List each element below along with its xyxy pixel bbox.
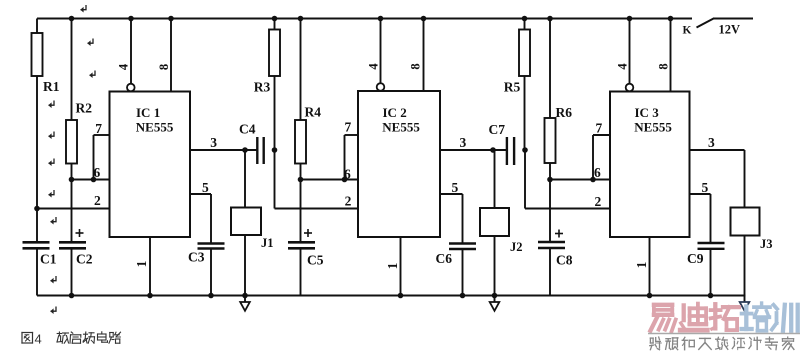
capacitor C3: [198, 244, 225, 299]
label pin1 IC3: [634, 261, 649, 268]
wire bottom ground rail: [37, 294, 746, 296]
label R4: [305, 105, 322, 120]
label C3: [188, 250, 205, 265]
label K: [683, 25, 692, 37]
label pin4 IC3: [616, 63, 630, 70]
capacitor C9: [698, 243, 725, 298]
label pin7 IC2: [345, 120, 352, 135]
label NE555 IC2: [382, 120, 420, 135]
svg-text:J1: J1: [261, 236, 274, 250]
svg-text:4: 4: [35, 332, 42, 347]
svg-text:IC 3: IC 3: [635, 105, 660, 120]
label R3: [254, 79, 271, 94]
paragraph return mark 3: [89, 71, 95, 79]
paragraph return mark 4: [48, 101, 54, 109]
svg-text:1: 1: [634, 261, 649, 268]
label pin4 IC1: [117, 63, 131, 70]
label pin3 IC3: [708, 135, 715, 150]
pin4 circle IC3: [626, 84, 634, 92]
label pin1 IC1: [134, 260, 149, 267]
wire IC2 pin7 step: [342, 135, 358, 182]
label pin2 IC1: [94, 193, 101, 208]
label J1: [261, 236, 274, 250]
svg-text:2: 2: [345, 194, 352, 209]
label pin7 IC3: [596, 121, 603, 136]
wire IC2 pin1 gnd: [398, 237, 404, 298]
svg-text:4: 4: [367, 63, 381, 70]
label pin2 IC2: [345, 194, 352, 209]
resistor R1: [32, 19, 43, 209]
wire J2 top: [494, 150, 496, 208]
svg-text:C5: C5: [307, 253, 324, 268]
label IC 2: [383, 105, 407, 120]
label C9: [687, 251, 704, 266]
wire IC1 pin1 gnd: [147, 237, 153, 298]
wire IC3 pin5: [690, 194, 711, 244]
svg-text:C8: C8: [556, 253, 573, 268]
svg-text:C7: C7: [489, 122, 506, 137]
svg-text:C3: C3: [188, 250, 205, 265]
wire IC3 pin4 reset: [627, 16, 633, 84]
capacitor C7 coupling: [507, 137, 514, 165]
wire top power rail: [37, 17, 692, 19]
svg-text:C6: C6: [436, 251, 453, 266]
watermark subtitle text: [650, 337, 794, 350]
svg-text:5: 5: [202, 180, 209, 195]
svg-text:R2: R2: [76, 101, 93, 116]
node R5 C7 junction: [522, 147, 528, 153]
label 12V: [719, 23, 741, 37]
paragraph return mark 5: [48, 132, 54, 140]
label pin7 IC1: [95, 121, 102, 136]
svg-text:C2: C2: [76, 252, 93, 267]
wire IC3 pin3 output: [690, 150, 745, 208]
label pin6 IC3: [594, 165, 601, 180]
label pin8 IC3: [657, 63, 671, 69]
label C2: [76, 252, 93, 267]
wire R1 bottom to C1: [36, 209, 38, 243]
label pin2 IC3: [595, 194, 602, 209]
svg-text:1: 1: [134, 260, 149, 267]
label C7: [489, 122, 506, 137]
label pin8 IC1: [157, 64, 171, 70]
svg-text:3: 3: [210, 135, 217, 150]
label pin5 IC3: [702, 180, 709, 195]
wire IC2 pin4 reset: [378, 16, 384, 84]
paragraph return mark 2: [87, 39, 93, 47]
label J2: [510, 240, 523, 254]
svg-text:8: 8: [157, 64, 171, 70]
op- IC1 box NE555: [110, 92, 191, 238]
paragraph return mark 8: [50, 217, 56, 225]
wire J2 bottom: [492, 236, 498, 298]
svg-text:R3: R3: [254, 79, 271, 94]
svg-text:C9: C9: [687, 251, 704, 266]
resistor R2: [66, 16, 77, 180]
wire IC1 pin6: [72, 179, 110, 181]
svg-text:IC 2: IC 2: [383, 105, 407, 120]
watermark logo text: [650, 303, 797, 331]
wire IC1 pin5: [190, 194, 211, 243]
svg-text:NE555: NE555: [382, 120, 420, 135]
wire R5 junction to IC3 pin2: [525, 150, 610, 209]
svg-text:R1: R1: [43, 79, 60, 94]
label C1: [40, 252, 57, 267]
svg-text:7: 7: [596, 121, 603, 136]
label C8 plus polarity: [555, 230, 563, 238]
wire IC2 pin3 output: [440, 149, 506, 151]
paragraph return mark 7: [48, 190, 54, 198]
wire IC3 pin7 step: [590, 135, 610, 182]
label C4: [239, 122, 256, 137]
svg-text:1: 1: [385, 262, 400, 269]
svg-text:4: 4: [117, 63, 131, 70]
svg-text:8: 8: [657, 63, 671, 69]
label pin6 IC2: [344, 167, 351, 182]
label C6: [436, 251, 453, 266]
wire J1 bottom: [242, 235, 248, 298]
label R6: [556, 105, 573, 120]
op- IC2 box NE555: [358, 91, 440, 237]
relay J2 box: [480, 208, 509, 236]
pin4 circle IC2: [377, 83, 385, 91]
label R5: [504, 79, 521, 94]
ground arrow stage1: [240, 296, 250, 311]
svg-text:8: 8: [409, 63, 423, 69]
svg-text:7: 7: [345, 120, 352, 135]
label R2: [76, 101, 93, 116]
wire IC2 pin8 vcc: [421, 16, 427, 91]
wire J3 bottom: [744, 236, 746, 296]
svg-text:NE555: NE555: [634, 120, 672, 135]
relay J1 box: [231, 208, 261, 236]
capacitor C5 electrolytic: [288, 180, 315, 296]
svg-text:5: 5: [452, 180, 459, 195]
label pin8 IC2: [409, 63, 423, 69]
label NE555 IC3: [634, 120, 672, 135]
wire 12V supply segment: [713, 17, 753, 19]
svg-text:K: K: [683, 25, 692, 37]
label IC 3: [635, 105, 660, 120]
label pin1 IC2: [385, 262, 400, 269]
svg-text:J2: J2: [510, 240, 523, 254]
label C5: [307, 253, 324, 268]
wire J1 top: [244, 150, 246, 208]
node R3 C4 junction: [272, 147, 278, 153]
wire IC3 pin6: [550, 179, 610, 181]
relay J3 box: [731, 208, 760, 236]
svg-text:C1: C1: [40, 252, 57, 267]
wire IC1 pin2: [37, 208, 110, 210]
watermark underline: [648, 333, 800, 335]
switch K blade: [697, 18, 715, 27]
label C2 plus polarity: [76, 229, 84, 237]
node J1 output junction: [242, 147, 248, 153]
label NE555 IC1: [136, 120, 174, 135]
ground arrow stage3: [740, 296, 750, 311]
label pin5 IC1: [202, 180, 209, 195]
wire IC3 pin8 vcc: [668, 16, 674, 92]
capacitor C2 electrolytic: [59, 180, 86, 299]
capacitor C6: [449, 244, 476, 299]
svg-text:R5: R5: [504, 79, 521, 94]
wire IC1 pin8 vcc: [168, 16, 174, 92]
wire IC1 pin4 reset: [128, 16, 134, 84]
svg-text:IC 1: IC 1: [136, 105, 160, 120]
label pin6 IC1: [94, 165, 101, 180]
svg-text:NE555: NE555: [136, 120, 174, 135]
resistor R4: [295, 16, 306, 180]
capacitor C8 electrolytic: [538, 180, 565, 296]
op- IC3 box NE555: [610, 92, 690, 238]
capacitor C4 coupling: [257, 137, 263, 164]
label IC 1: [136, 105, 160, 120]
node J2 output junction: [490, 147, 496, 153]
svg-text:R6: R6: [556, 105, 573, 120]
label pin3 IC2: [460, 135, 467, 150]
svg-text:3: 3: [460, 135, 467, 150]
node pin2 junction stage1: [34, 206, 40, 212]
svg-text:2: 2: [94, 193, 101, 208]
svg-text:C4: C4: [239, 122, 256, 137]
svg-text:2: 2: [595, 194, 602, 209]
wire R3 junction to IC2 pin2: [275, 150, 359, 209]
label C5 plus polarity: [304, 229, 312, 237]
svg-text:R4: R4: [305, 105, 322, 120]
wire IC2 pin5: [440, 194, 463, 244]
svg-text:5: 5: [702, 180, 709, 195]
svg-text:4: 4: [616, 63, 630, 70]
capacitor C1: [23, 242, 50, 295]
node R2 bottom junction: [69, 177, 75, 183]
paragraph return mark 9: [50, 276, 56, 284]
resistor R6: [545, 16, 556, 180]
svg-text:12V: 12V: [719, 23, 741, 37]
svg-text:3: 3: [708, 135, 715, 150]
pin4 circle IC1: [127, 84, 135, 92]
caption figure 4 soft-start circuit: [22, 332, 121, 347]
label pin5 IC2: [452, 180, 459, 195]
wire IC3 pin1 gnd: [647, 237, 653, 298]
wire IC2 pin6: [301, 179, 359, 181]
paragraph return mark 1: [80, 5, 86, 13]
svg-text:7: 7: [95, 121, 102, 136]
wire IC1 pin7 step: [91, 135, 110, 182]
label pin4 IC2: [367, 63, 381, 70]
paragraph return mark 6: [48, 159, 54, 167]
wire IC1 pin3 output: [190, 149, 257, 151]
label C8: [556, 253, 573, 268]
node R6 bottom junction: [547, 177, 553, 183]
ground arrow stage2: [490, 296, 500, 311]
svg-text:J3: J3: [760, 237, 773, 251]
label pin3 IC1: [210, 135, 217, 150]
paragraph return mark 10: [50, 307, 56, 315]
label R1: [43, 79, 60, 94]
resistor R5: [519, 16, 530, 150]
node R4 bottom junction: [298, 177, 304, 183]
resistor R3: [269, 16, 280, 150]
label J3: [760, 237, 773, 251]
